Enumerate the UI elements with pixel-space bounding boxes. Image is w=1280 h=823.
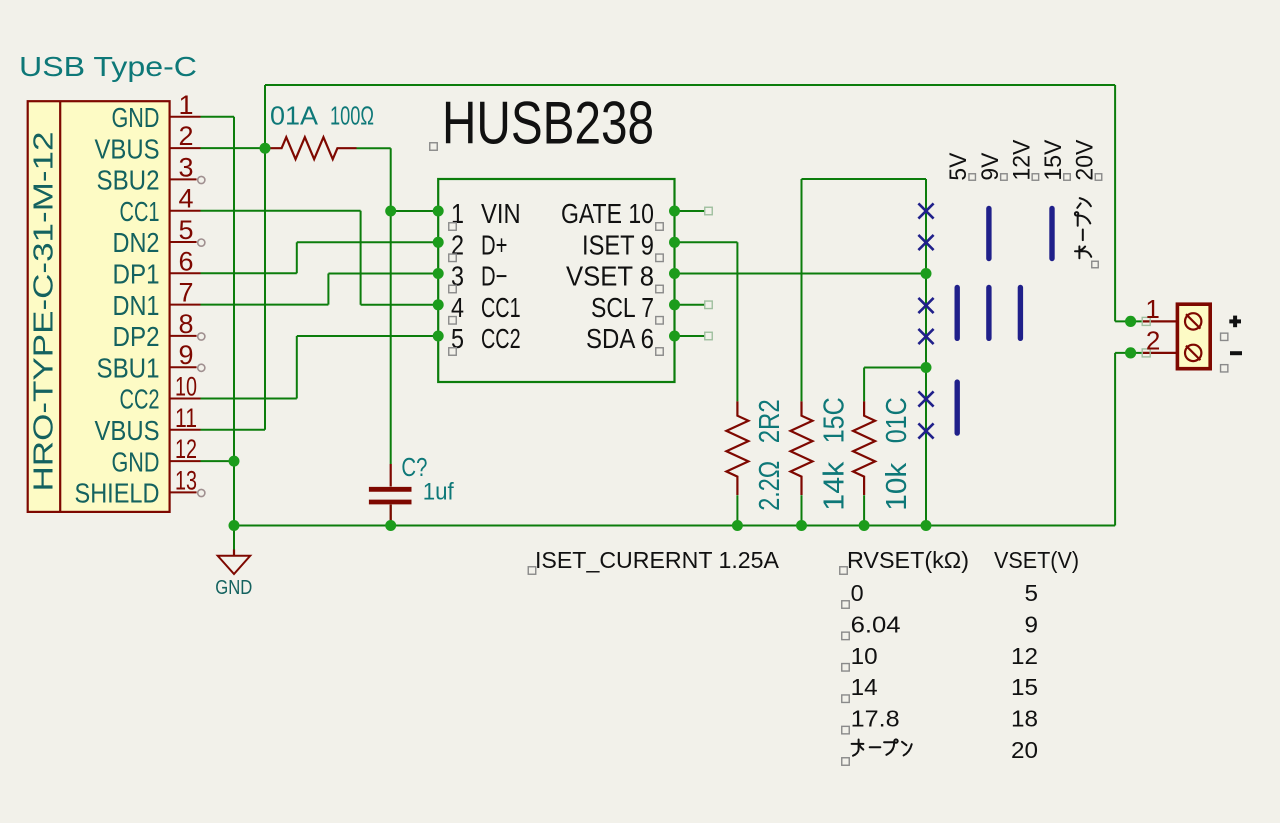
svg-text:5: 5 <box>451 323 464 354</box>
svg-text:3: 3 <box>451 261 464 292</box>
svg-text:VSET 8: VSET 8 <box>566 261 654 292</box>
svg-text:CC1: CC1 <box>481 292 521 323</box>
svg-text:DP1: DP1 <box>113 259 160 290</box>
svg-text:SBU2: SBU2 <box>97 165 160 196</box>
svg-text:11: 11 <box>175 403 197 433</box>
svg-text:5: 5 <box>1025 580 1039 606</box>
svg-text:100Ω: 100Ω <box>330 101 374 131</box>
svg-text:RVSET(kΩ): RVSET(kΩ) <box>847 547 969 573</box>
svg-text:6.04: 6.04 <box>851 611 901 637</box>
svg-text:18: 18 <box>1011 706 1038 732</box>
svg-text:VIN: VIN <box>481 198 521 229</box>
svg-text:4: 4 <box>451 292 464 323</box>
svg-text:USB Type-C: USB Type-C <box>19 51 197 82</box>
svg-text:9: 9 <box>1025 611 1039 637</box>
svg-text:10: 10 <box>851 643 878 669</box>
svg-text:20: 20 <box>1011 737 1038 763</box>
svg-text:6: 6 <box>178 246 193 276</box>
svg-text:GND: GND <box>112 102 160 133</box>
svg-text:12V: 12V <box>1008 140 1035 181</box>
svg-text:5: 5 <box>178 215 193 245</box>
svg-text:10k: 10k <box>881 462 913 511</box>
svg-text:SDA 6: SDA 6 <box>586 323 654 354</box>
svg-text:7: 7 <box>178 278 193 308</box>
svg-text:0: 0 <box>851 580 864 606</box>
svg-text:14: 14 <box>851 674 878 700</box>
svg-text:3: 3 <box>178 152 193 182</box>
svg-text:10: 10 <box>175 372 197 402</box>
svg-text:1: 1 <box>451 198 464 229</box>
svg-text:14k: 14k <box>818 461 850 511</box>
svg-text:DP2: DP2 <box>113 321 160 352</box>
svg-text:HRO-TYPE-C-31-M-12: HRO-TYPE-C-31-M-12 <box>28 132 59 492</box>
svg-text:VSET(V): VSET(V) <box>994 547 1079 573</box>
svg-text:2.2Ω: 2.2Ω <box>754 461 786 511</box>
svg-text:1: 1 <box>178 90 193 120</box>
svg-text:SCL 7: SCL 7 <box>591 292 654 323</box>
svg-text:9V: 9V <box>977 153 1004 181</box>
svg-text:VBUS: VBUS <box>95 133 160 164</box>
svg-text:GND: GND <box>112 446 160 477</box>
svg-text:2: 2 <box>451 229 464 260</box>
svg-text:15V: 15V <box>1040 140 1067 181</box>
svg-text:12: 12 <box>175 434 197 464</box>
svg-text:HUSB238: HUSB238 <box>442 90 654 157</box>
svg-text:2R2: 2R2 <box>754 399 786 443</box>
svg-text:ISET 9: ISET 9 <box>582 229 654 260</box>
svg-text:VBUS: VBUS <box>95 415 160 446</box>
svg-text:1uf: 1uf <box>423 479 454 506</box>
svg-text:20V: 20V <box>1072 140 1099 181</box>
svg-text:ISET_CURERNT 1.25A: ISET_CURERNT 1.25A <box>535 547 780 573</box>
svg-text:D−: D− <box>481 261 507 292</box>
svg-text:13: 13 <box>175 465 197 495</box>
svg-text:DN2: DN2 <box>113 227 160 258</box>
svg-text:15C: 15C <box>818 397 850 443</box>
svg-text:15: 15 <box>1011 674 1038 700</box>
svg-text:4: 4 <box>178 184 193 214</box>
svg-text:DN1: DN1 <box>113 290 160 321</box>
svg-text:CC1: CC1 <box>120 196 160 227</box>
svg-text:SBU1: SBU1 <box>97 352 160 383</box>
svg-text:5V: 5V <box>945 153 972 181</box>
svg-text:1: 1 <box>1145 294 1159 324</box>
svg-text:D+: D+ <box>481 229 507 260</box>
svg-text:8: 8 <box>178 309 193 339</box>
svg-text:01A: 01A <box>270 101 319 131</box>
svg-text:01C: 01C <box>881 397 913 443</box>
svg-text:2: 2 <box>1146 325 1160 355</box>
svg-text:2: 2 <box>178 121 193 151</box>
svg-text:CC2: CC2 <box>120 384 160 415</box>
svg-text:17.8: 17.8 <box>851 706 900 732</box>
svg-text:12: 12 <box>1011 643 1038 669</box>
svg-text:GND: GND <box>215 577 252 599</box>
svg-text:SHIELD: SHIELD <box>75 478 160 509</box>
svg-text:CC2: CC2 <box>481 323 521 354</box>
svg-text:9: 9 <box>178 340 193 370</box>
svg-text:GATE 10: GATE 10 <box>561 198 654 229</box>
